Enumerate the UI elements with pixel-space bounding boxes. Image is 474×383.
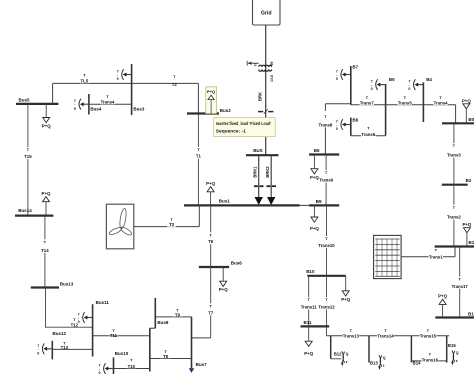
- bus Bus2: [187, 108, 231, 114]
- svg-text:13.8: 13.8: [270, 75, 274, 82]
- svg-text:T1: T1: [196, 154, 202, 159]
- svg-text:Bus6: Bus6: [231, 260, 243, 265]
- svg-text:Bus8: Bus8: [157, 320, 169, 325]
- svg-text:Trans16: Trans16: [422, 357, 439, 362]
- svg-text:BRK2: BRK2: [265, 166, 270, 178]
- svg-text:Bus10: Bus10: [115, 351, 129, 356]
- svg-text:69: 69: [270, 62, 274, 66]
- selected load fixed_load on Bus2 (highlighted): [206, 87, 217, 114]
- svg-text:Trans15: Trans15: [420, 334, 437, 339]
- transformer icon at B5: [371, 79, 386, 91]
- line label T13: [60, 338, 70, 350]
- svg-text:B13: B13: [370, 361, 378, 366]
- svg-text:T8: T8: [163, 354, 169, 359]
- transmission line T14: [40, 216, 49, 288]
- svg-text:B0: B0: [468, 117, 474, 122]
- svg-text:BRK1: BRK1: [252, 166, 257, 178]
- wire TL5 (Bus5 to Bus2): [53, 82, 199, 84]
- breaker BRK1: [252, 155, 263, 205]
- breaker BRK contacts: [258, 109, 273, 113]
- wire Trans5 (B5 to B4): [386, 104, 424, 106]
- svg-text:0: 0: [99, 371, 101, 375]
- wire T9 (Bus8 to Bus7): [155, 316, 191, 318]
- svg-text:Trans11: Trans11: [301, 304, 318, 309]
- svg-text:T15: T15: [24, 154, 32, 159]
- svg-text:T9: T9: [175, 313, 181, 318]
- source on Bus14 (P+Q): [42, 191, 51, 216]
- line label T2: [172, 74, 178, 87]
- transformer icon at Bus4: [74, 99, 89, 111]
- wire Bus1 to B9: [300, 204, 310, 206]
- svg-text:Trans4: Trans4: [101, 100, 115, 105]
- wire Trans1 (PV to B1): [401, 247, 455, 257]
- svg-text:Trans2: Trans2: [447, 215, 461, 220]
- transmission line T6: [206, 205, 215, 267]
- svg-text:P+Q: P+Q: [42, 191, 51, 196]
- bus Bus5: [16, 97, 58, 104]
- svg-text:TL5: TL5: [80, 79, 88, 84]
- bus B14: [411, 336, 421, 366]
- svg-text:Trans6: Trans6: [361, 132, 375, 137]
- load on B0 (P+Q): [462, 98, 471, 123]
- svg-text:z: z: [346, 360, 348, 364]
- svg-text:Sequence: -1: Sequence: -1: [216, 129, 246, 134]
- svg-text:B7: B7: [352, 65, 358, 70]
- bus B12: [331, 336, 342, 359]
- svg-text:0: 0: [74, 107, 76, 111]
- bus B16: [435, 311, 474, 317]
- bus Bus12: [52, 331, 66, 360]
- svg-text:P+Q: P+Q: [310, 226, 319, 231]
- bus B9: [309, 199, 339, 206]
- load on Bus5 (P+Q): [42, 104, 51, 129]
- bus Bus1: [184, 199, 300, 206]
- line label Trans8: [318, 111, 332, 128]
- breaker BRK2: [265, 155, 276, 205]
- svg-text:B16: B16: [468, 311, 474, 316]
- wind turbine generator box: [106, 204, 133, 249]
- svg-text:T13: T13: [61, 345, 69, 350]
- transmission line T15: [23, 104, 32, 216]
- bus B1: [435, 240, 474, 247]
- wire Trans8 (B7 wire to B6): [325, 104, 350, 155]
- line label T9: [173, 306, 183, 318]
- line label Trans1: [429, 247, 444, 259]
- bus B7: [351, 65, 359, 105]
- svg-text:B6: B6: [314, 148, 320, 153]
- wire T10 (Bus10 to Bus9): [114, 368, 150, 370]
- wire TL5 drop to Bus5: [52, 83, 54, 104]
- load on B1 (P+Q): [462, 222, 471, 247]
- svg-text:0: 0: [336, 127, 338, 131]
- svg-text:Trans10: Trans10: [318, 243, 335, 248]
- bus B13: [369, 336, 378, 366]
- svg-text:0: 0: [336, 77, 338, 81]
- svg-text:P+Q: P+Q: [42, 124, 51, 129]
- bus Bus7: [192, 317, 208, 368]
- svg-text:P+Q: P+Q: [462, 222, 471, 227]
- svg-text:P+Q: P+Q: [310, 175, 319, 180]
- bus Bus6: [199, 260, 242, 267]
- svg-text:B10: B10: [306, 269, 315, 274]
- wire Trans16 (B14 to B15): [411, 360, 446, 362]
- transformer icon at Bus11: [78, 312, 93, 324]
- line label T10: [127, 357, 137, 368]
- wire drop to Bus2: [197, 83, 199, 113]
- svg-text:Trans14: Trans14: [377, 334, 394, 339]
- wire turbine to Bus1: [134, 205, 200, 226]
- svg-text:P+Q: P+Q: [219, 287, 228, 292]
- wire T8 (Bus9 to Bus7): [150, 358, 192, 360]
- svg-text:Trans13: Trans13: [343, 334, 360, 339]
- transmission line T1: [194, 114, 203, 206]
- load on Bus6 (P+Q): [219, 267, 228, 292]
- svg-text:Trans9: Trans9: [319, 178, 333, 183]
- svg-text:BRK: BRK: [258, 92, 263, 101]
- line label Trans14: [377, 328, 394, 339]
- bus Bus9: [150, 320, 169, 371]
- svg-text:B2: B2: [466, 178, 472, 183]
- svg-text:Bus4: Bus4: [90, 107, 102, 112]
- bus Bus13: [31, 281, 74, 287]
- line label Trans15: [420, 328, 437, 339]
- line label Trans5: [398, 95, 413, 106]
- svg-text:Bus12: Bus12: [53, 331, 67, 336]
- source on Bus1 (P+Q): [206, 181, 215, 205]
- bus Bus14: [15, 208, 53, 215]
- svg-text:z: z: [456, 359, 458, 363]
- bus Bus3: [132, 64, 145, 115]
- grid source box: [253, 0, 281, 25]
- wire T12 (Bus13 to Bus11): [46, 288, 93, 328]
- note master fixed_load: [214, 118, 276, 137]
- svg-text:T2: T2: [172, 82, 178, 87]
- svg-text:0: 0: [117, 77, 119, 81]
- bus B11: [301, 320, 330, 326]
- transmission line T7: [206, 267, 215, 338]
- svg-text:T7: T7: [208, 310, 214, 315]
- transformer icon at B7: [336, 69, 351, 81]
- svg-text:B8: B8: [352, 117, 358, 122]
- transmission line Trans2: [447, 185, 462, 247]
- line label T3: [167, 217, 176, 227]
- breaker BRK label: [258, 92, 263, 101]
- bus Bus4: [89, 94, 102, 115]
- transformer icon at Bus12: [37, 343, 52, 355]
- transmission line Trans11: [300, 276, 317, 327]
- transformer icon at Bus10: [99, 363, 114, 375]
- svg-text:Trans3: Trans3: [447, 153, 461, 158]
- load on B9 (P+Q): [310, 205, 319, 231]
- line label Trans16: [422, 352, 439, 363]
- svg-text:P+Q: P+Q: [438, 293, 447, 298]
- wire Trans7 (B7 to B5): [351, 104, 386, 106]
- svg-text:P+Q: P+Q: [304, 351, 313, 356]
- wire T13 (Bus12 to Bus11): [52, 348, 92, 350]
- bus B2: [442, 178, 472, 185]
- line label T12: [70, 314, 80, 327]
- transformer icon at B4: [408, 79, 423, 91]
- transformer icon at B12: [341, 351, 349, 366]
- transmission line Trans10: [318, 205, 335, 275]
- transformer icon at Bus3: [117, 69, 132, 81]
- transformer icon at B13: [378, 355, 386, 370]
- line label Trans13: [343, 328, 360, 339]
- svg-text:Bus11: Bus11: [96, 300, 110, 305]
- bus Bus10: [114, 351, 129, 374]
- transformer icon at B8: [336, 119, 351, 131]
- wire grid to main bus: [265, 25, 267, 155]
- svg-text:B12: B12: [334, 351, 342, 356]
- wire T11 (Bus11 to Bus9): [93, 335, 150, 337]
- svg-text:Q: Q: [383, 356, 386, 360]
- svg-text:B9: B9: [316, 199, 322, 204]
- bus B5: [386, 77, 396, 136]
- svg-text:Bus2: Bus2: [220, 108, 232, 113]
- svg-text:master:fixed_load 'Fixed Load': master:fixed_load 'Fixed Load': [216, 121, 271, 126]
- load on B6 (P+Q): [310, 155, 319, 181]
- bus B4: [423, 77, 432, 122]
- svg-text:T6: T6: [208, 239, 214, 244]
- svg-text:P+Q: P+Q: [207, 89, 215, 94]
- line label Trans7: [360, 95, 375, 106]
- svg-text:Trans8: Trans8: [318, 123, 332, 128]
- svg-text:Bus5: Bus5: [19, 97, 31, 102]
- svg-text:T3: T3: [169, 222, 175, 227]
- svg-text:T10: T10: [128, 364, 136, 369]
- bus B8: [351, 117, 359, 135]
- svg-text:P+Q: P+Q: [341, 297, 350, 302]
- svg-text:T14: T14: [41, 248, 49, 253]
- svg-text:0: 0: [78, 320, 80, 324]
- transformer icon at B15: [451, 350, 459, 365]
- svg-text:Trans7: Trans7: [360, 101, 374, 106]
- svg-text:Q: Q: [346, 352, 349, 356]
- svg-text:Bus3: Bus3: [133, 107, 145, 112]
- svg-text:Trans12: Trans12: [318, 304, 335, 309]
- svg-text:Bus14: Bus14: [18, 208, 32, 213]
- tap arrow on transformer: [247, 61, 259, 66]
- line label T11: [109, 325, 119, 338]
- svg-text:B1: B1: [469, 240, 474, 245]
- transmission line Trans9: [319, 155, 334, 206]
- bus Bus11: [93, 300, 110, 357]
- svg-text:T11: T11: [110, 333, 118, 338]
- line label T8: [161, 348, 171, 360]
- svg-text:Trans1: Trans1: [429, 254, 443, 259]
- load on B11 (P+Q): [304, 326, 313, 355]
- svg-text:0: 0: [37, 351, 39, 355]
- transmission line Trans17: [451, 247, 468, 318]
- wire Trans4 (B4 to B0): [423, 105, 455, 124]
- bus B15: [447, 336, 457, 363]
- bus B6: [309, 148, 339, 155]
- wire Trans4 (Bus4 to Bus3): [89, 103, 132, 105]
- svg-text:P+Q: P+Q: [462, 98, 471, 103]
- ground arrow on Bus7: [189, 368, 194, 373]
- bus Bus8 stub: [150, 298, 156, 328]
- svg-text:B4: B4: [426, 77, 432, 82]
- bus B10: [306, 269, 346, 276]
- wire distribution chain: [327, 335, 450, 337]
- svg-text:z: z: [383, 364, 385, 368]
- wire Trans6 (B8 to B5): [351, 135, 386, 137]
- source on B16 (P+Q): [438, 293, 447, 317]
- line label TL5: [80, 73, 89, 84]
- line label Trans6: [361, 125, 376, 137]
- svg-text:Bus7: Bus7: [196, 362, 208, 367]
- bus B0: [442, 117, 474, 124]
- svg-text:P+Q: P+Q: [206, 181, 215, 186]
- wire jog T7 to Bus7: [192, 337, 211, 339]
- svg-text:B5: B5: [389, 77, 395, 82]
- svg-text:Trans5: Trans5: [398, 101, 412, 106]
- transformer T1 main (grid step-down): [253, 62, 274, 82]
- load on B10 right (P+Q): [341, 276, 350, 302]
- svg-text:Trans17: Trans17: [452, 284, 469, 289]
- transmission line Trans3: [447, 123, 462, 184]
- svg-text:Trans4: Trans4: [434, 101, 448, 106]
- svg-text:0: 0: [371, 87, 373, 91]
- svg-text:Bus1: Bus1: [219, 199, 231, 204]
- svg-text:B11: B11: [304, 320, 313, 325]
- svg-text:BUS: BUS: [253, 148, 263, 153]
- transmission line Trans12: [318, 276, 335, 336]
- line label Trans4b: [433, 95, 448, 106]
- bus BUS: [246, 148, 279, 155]
- svg-text:Q: Q: [456, 351, 459, 355]
- line label Trans4: [100, 94, 115, 105]
- PV array box: [374, 235, 402, 278]
- svg-text:B15: B15: [448, 343, 456, 348]
- svg-text:Grid: Grid: [261, 11, 272, 17]
- svg-text:0: 0: [408, 87, 410, 91]
- svg-text:Bus13: Bus13: [60, 281, 74, 286]
